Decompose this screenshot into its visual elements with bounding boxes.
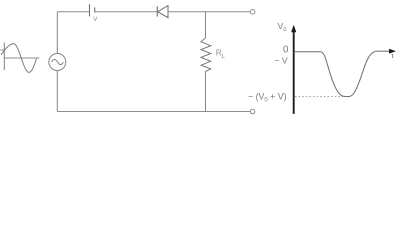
- resistor RL: zigzag: [201, 38, 211, 72]
- output graph: waveform flat segment right (t axis): [376, 50, 390, 52]
- output graph: V0 axis vertical line: [293, 30, 295, 114]
- svg-text:0: 0: [283, 27, 286, 33]
- output graph: waveform negative dip: [322, 52, 376, 97]
- wire: left vertical lower segment (source to bottom wire): [56, 71, 58, 112]
- input waveform vin: vertical axis: [3, 43, 5, 71]
- wire: resistor branch upper segment: [205, 12, 207, 38]
- input waveform vin: t-axis: [4, 57, 39, 59]
- input waveform vin: amplitude tick: [0, 49, 4, 51]
- input waveform vin: sine curve: [1, 44, 37, 73]
- wire: bottom wire: [57, 111, 250, 113]
- terminal: top output: [250, 10, 255, 15]
- battery V: short plate: [94, 7, 96, 12]
- ac source V1: circle: [49, 54, 66, 71]
- wire: battery to diode: [95, 11, 158, 13]
- output graph: dotted level line at -(V0+V): [295, 96, 346, 98]
- terminal: bottom output: [250, 109, 255, 114]
- svg-text:0: 0: [283, 44, 289, 55]
- wire: resistor branch lower segment: [205, 72, 207, 112]
- output graph: t-axis arrowhead: [389, 49, 396, 54]
- svg-text:t: t: [392, 53, 394, 60]
- wire: left vertical upper segment (top corner to source): [56, 12, 58, 54]
- wire: diode to top-right terminal: [168, 11, 250, 13]
- svg-text:− V: − V: [275, 56, 288, 66]
- wire: top wire from left corner to battery: [57, 11, 89, 13]
- battery V: long plate: [89, 4, 91, 16]
- output graph: waveform flat segment at 0: [295, 51, 322, 53]
- output graph: V0 axis arrowhead: [291, 25, 296, 33]
- diode D1: cathode bar: [156, 6, 158, 16]
- ac source V1: inner sine: [51, 59, 63, 64]
- diode D1: triangle (anode, pointing left): [158, 6, 168, 18]
